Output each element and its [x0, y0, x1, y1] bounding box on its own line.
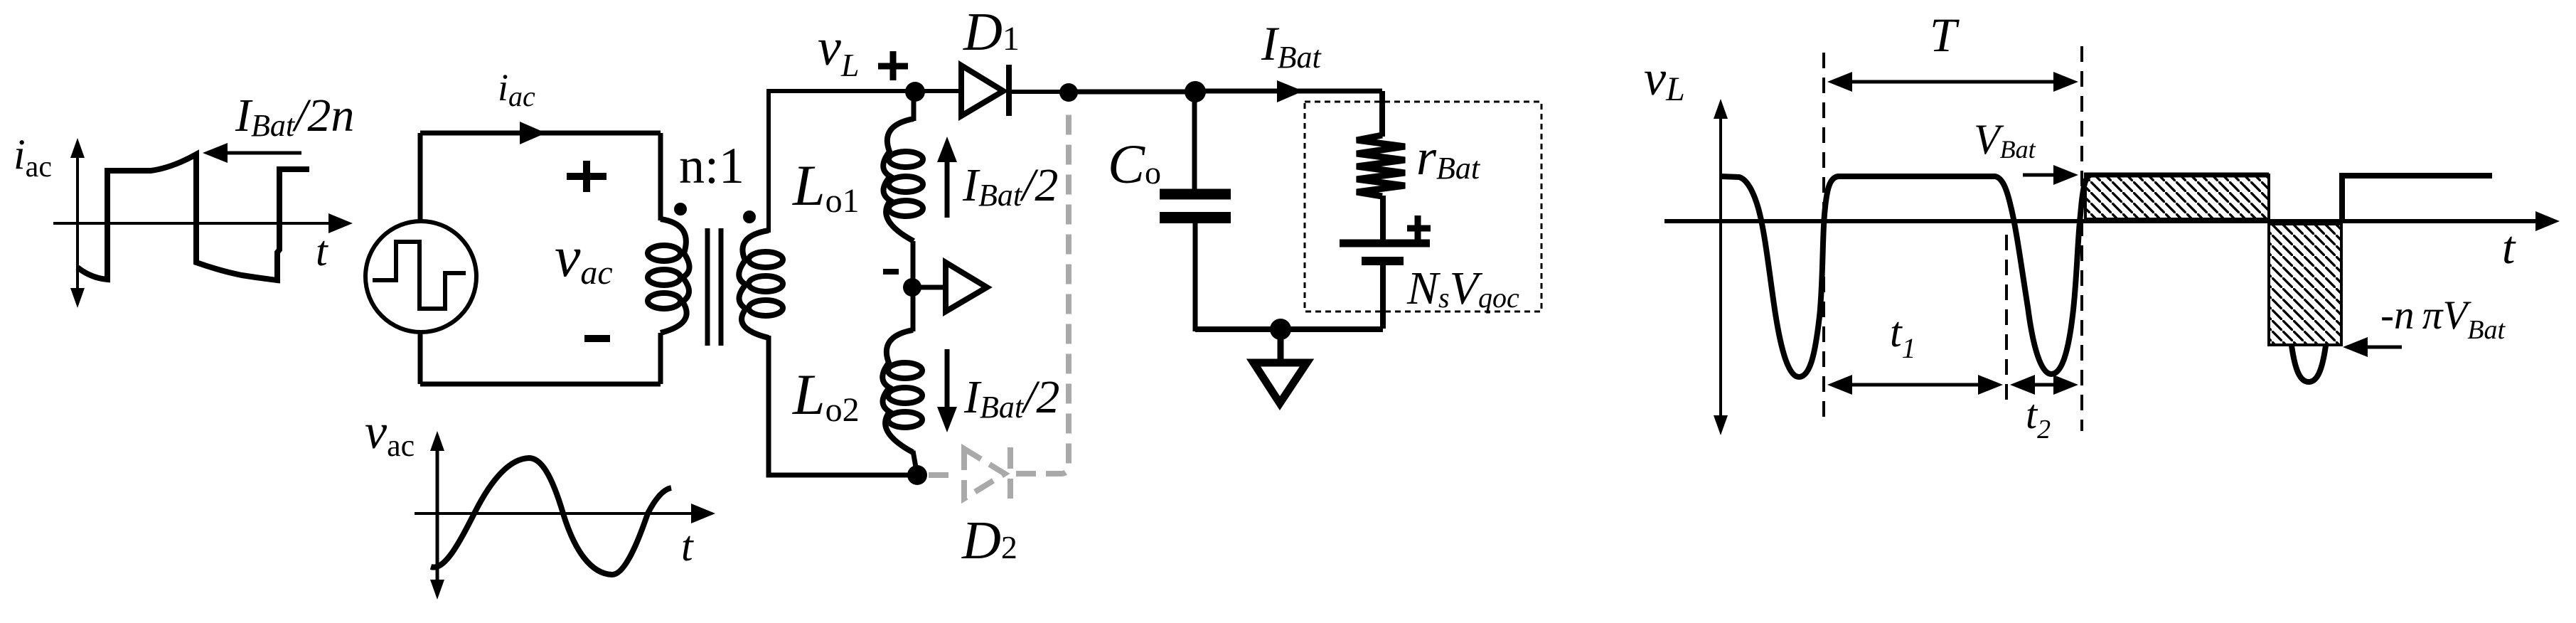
wire bottom of source loop	[420, 382, 661, 387]
wire D1 to node2	[1009, 90, 1069, 94]
i_ac waveform curve	[78, 154, 309, 280]
svg-text:n:1: n:1	[679, 137, 744, 194]
arrow t2 (double)	[2021, 383, 2068, 387]
dashed marker line 1	[1822, 53, 1825, 423]
wire Lo1 to middle node	[911, 241, 916, 287]
label + (source)	[567, 173, 606, 180]
wire right vertical into primary	[658, 133, 663, 220]
svg-text:t: t	[2502, 222, 2516, 274]
wire secondary top to v_L node	[769, 91, 915, 233]
arrow t1 (double)	[1838, 383, 1992, 387]
hatched area negative	[2269, 224, 2341, 345]
wire secondary bottom to bottom rail	[769, 336, 915, 475]
primary dot	[674, 203, 687, 215]
bottom rail wire	[1195, 326, 1383, 332]
primary winding coil	[648, 219, 690, 333]
svg-text:T: T	[1930, 8, 1960, 62]
label + (v_L)	[878, 63, 908, 70]
node bottom	[907, 465, 927, 485]
i_ac plot vertical axis	[76, 147, 79, 299]
battery model dashed box	[1305, 102, 1541, 311]
ground symbol	[1278, 329, 1284, 360]
arrow IBat/2 up	[945, 153, 950, 218]
v_ac plot horizontal axis	[415, 512, 705, 515]
source V1 circle	[365, 221, 476, 332]
secondary dot	[743, 211, 756, 223]
v_L dip in negative area	[2292, 346, 2326, 382]
arrow IBat/2 down	[945, 349, 950, 416]
wire bottom vertical from source	[418, 332, 423, 384]
wire node to Co top plate	[1192, 92, 1197, 189]
arrow IBat/2n	[213, 151, 301, 155]
wire node3 to battery branch	[1195, 89, 1382, 94]
arrow V_Bat	[2023, 174, 2068, 177]
label + (battery)	[1407, 225, 1431, 232]
node at Co	[1185, 81, 1206, 102]
inductor Lo1	[883, 119, 923, 241]
arrow I_Bat	[1277, 80, 1303, 102]
node ground	[1270, 319, 1291, 340]
hatched area positive	[2085, 175, 2269, 219]
battery cell NsVqoc	[1340, 240, 1430, 247]
node after D1	[1059, 83, 1078, 102]
diode D2 triangle	[964, 449, 1005, 499]
wire top of source loop	[420, 131, 661, 136]
wire middle node to Lo2	[911, 287, 916, 331]
v_L plot horizontal axis	[1664, 219, 2549, 223]
wire left vertical to source	[418, 133, 423, 222]
node middle	[903, 278, 921, 297]
wire battery to bottom rail	[1380, 261, 1386, 329]
i_ac plot horizontal axis	[53, 222, 343, 225]
v_L plot vertical axis	[1719, 108, 1722, 426]
diode D1	[961, 65, 1003, 116]
wire rBat to battery	[1380, 196, 1386, 240]
wire Lo2 to bottom node	[913, 451, 917, 475]
wire D2 to riser (dashed gray)	[1016, 107, 1069, 474]
wire Co bottom plate to bottom rail	[1193, 218, 1198, 331]
inductor Lo2	[882, 330, 922, 452]
v_L waveform first periods	[1721, 175, 2090, 377]
label - (source)	[584, 335, 610, 342]
wire down to rBat	[1379, 91, 1385, 137]
v_ac plot vertical axis	[436, 441, 439, 590]
arrow -n pi V_Bat	[2353, 346, 2402, 349]
transformer core	[705, 228, 710, 346]
svg-text:t: t	[316, 228, 328, 275]
wire v_L node to D1	[915, 89, 960, 93]
secondary winding coil	[739, 230, 783, 338]
label - (middle)	[883, 269, 899, 275]
wire middle node to pointer	[912, 285, 946, 290]
v_ac sine curve	[431, 458, 671, 575]
dashed marker line 3	[2080, 46, 2083, 431]
arrow i_ac on top wire	[520, 122, 546, 144]
dashed marker line 2 (short)	[2005, 235, 2008, 405]
wire node to Lo1	[912, 92, 916, 121]
pointer triangle (middle)	[946, 262, 987, 311]
node v_L	[905, 82, 925, 102]
diode D2 cathode bar	[1008, 447, 1013, 499]
capacitor Co plates	[1160, 189, 1231, 200]
v_L waveform after hatch	[2342, 176, 2492, 223]
wire node2 to node3	[1069, 90, 1195, 95]
source square-wave symbol	[373, 242, 466, 309]
wire to D2 (dashed gray)	[929, 472, 958, 478]
svg-text:t: t	[681, 523, 694, 570]
resistor rBat	[1357, 135, 1405, 196]
arrow T (double)	[1838, 80, 2068, 84]
